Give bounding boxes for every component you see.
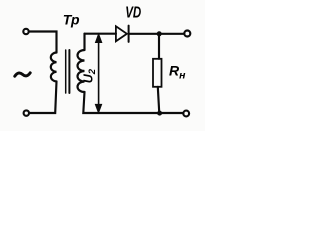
svg-text:VD: VD [125, 3, 141, 21]
svg-text:Тр: Тр [63, 11, 80, 27]
